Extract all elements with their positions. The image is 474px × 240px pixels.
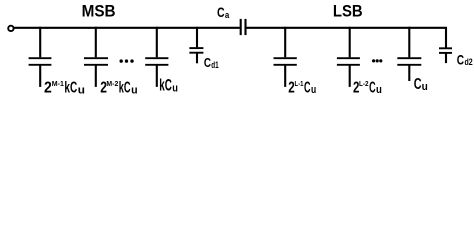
svg-text:kC: kC [119, 79, 131, 96]
value label Cd1 [204, 55, 219, 70]
svg-text:u: u [422, 81, 428, 93]
capacitor 2^(L-2)Cu [337, 27, 360, 87]
value label Cd2 [457, 51, 473, 67]
capacitor Cu [397, 27, 421, 81]
label Ca [217, 5, 230, 20]
value label 2^(M-1)kCu [44, 79, 85, 96]
wire: top rail right segment (Ca right plate to Cd2 corner) [247, 28, 447, 48]
svg-text:kC: kC [159, 77, 172, 95]
svg-text:L-1: L-1 [295, 79, 304, 88]
dots LSB ellipsis [372, 59, 382, 62]
capacitor 2^(L-1)Cu [274, 27, 297, 87]
wire: top rail left segment (terminal to Ca left plate) [14, 27, 240, 29]
capacitor Ca (series coupling cap) [241, 19, 246, 35]
dots MSB ellipsis [120, 59, 134, 62]
svg-text:C: C [204, 55, 211, 70]
capacitor 2^(M-2)kCu [84, 27, 108, 87]
capacitor Cd2 [439, 48, 452, 63]
svg-text:C: C [217, 5, 225, 20]
svg-text:2: 2 [44, 79, 52, 96]
svg-text:M-2: M-2 [106, 79, 118, 88]
svg-text:u: u [376, 84, 382, 96]
svg-text:u: u [311, 84, 316, 96]
svg-text:LSB: LSB [333, 3, 363, 21]
svg-text:d1: d1 [211, 60, 218, 70]
svg-text:L-2: L-2 [359, 79, 369, 88]
value label 2^(L-1)Cu [288, 79, 316, 96]
value label 2^(M-2)kCu [100, 79, 137, 96]
svg-text:kC: kC [64, 79, 77, 96]
value label kCu [159, 77, 178, 95]
svg-text:u: u [172, 82, 178, 94]
svg-text:M-1: M-1 [52, 79, 65, 88]
value label Cu [414, 76, 428, 93]
svg-text:C: C [457, 51, 464, 67]
svg-text:d2: d2 [465, 56, 473, 67]
svg-text:u: u [78, 84, 85, 96]
value label 2^(L-2)Cu [353, 79, 382, 96]
capacitor kCu [145, 27, 168, 87]
svg-text:C: C [304, 79, 311, 96]
svg-text:u: u [131, 84, 138, 96]
svg-text:MSB: MSB [82, 3, 116, 21]
capacitor Cd1 [189, 27, 203, 64]
input terminal (open circle) [8, 26, 13, 31]
svg-text:C: C [369, 79, 376, 96]
capacitor 2^(M-1)kCu [29, 27, 52, 87]
